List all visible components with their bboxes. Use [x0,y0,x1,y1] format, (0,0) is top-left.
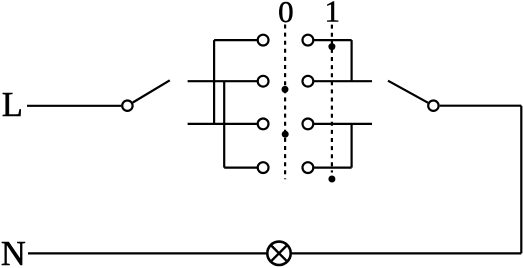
wire bus A vertical [213,40,215,124]
movable contact dot 1-upper [328,43,335,50]
wire right row4 to corner [313,167,351,169]
position line 1 dashed [331,25,333,173]
terminal contact right row4 [303,162,314,173]
terminal contact right row1 [303,35,314,46]
wire right row1 to corner [313,39,351,41]
switch S2 blade [388,81,428,103]
wire L feed [27,105,121,107]
svg-text:N: N [1,235,26,268]
terminal contact left row3 [258,119,269,130]
switch S1 blade [133,80,170,102]
movable contact dot 1-lower [328,176,335,183]
wire right rail vertical [520,106,522,254]
wire left row1 to bus A [214,39,258,41]
movable contact dot 0-upper [282,86,289,93]
wire right row2 stub [313,80,372,82]
wire left row3 stub [188,123,258,125]
wire bottom right to lamp [292,252,522,254]
switch S2 pivot [428,101,438,111]
wire S2 to right rail [440,105,522,107]
lamp EL1 [267,242,290,265]
wire right vertical row1-row2 [351,40,353,81]
wire right vertical row3-row4 [351,124,353,168]
svg-text:1: 1 [325,0,341,29]
lamp EL1 cross [272,246,287,261]
terminal contact right row3 [303,119,314,130]
terminal contact right row2 [303,76,314,87]
svg-text:L: L [2,86,23,124]
wire N feed [28,252,266,254]
switch S1 pivot [122,101,132,111]
terminal contact left row1 [258,35,269,46]
movable contact dot 0-lower [282,131,289,138]
terminal contact left row2 [258,76,269,87]
wire left row2 stub [188,80,258,82]
position line 0 dashed [284,25,286,180]
terminal contact left row4 [258,162,269,173]
wire left row4 to bus B [224,167,258,169]
wire right row3 stub [313,123,372,125]
wire bus B vertical [223,81,225,167]
